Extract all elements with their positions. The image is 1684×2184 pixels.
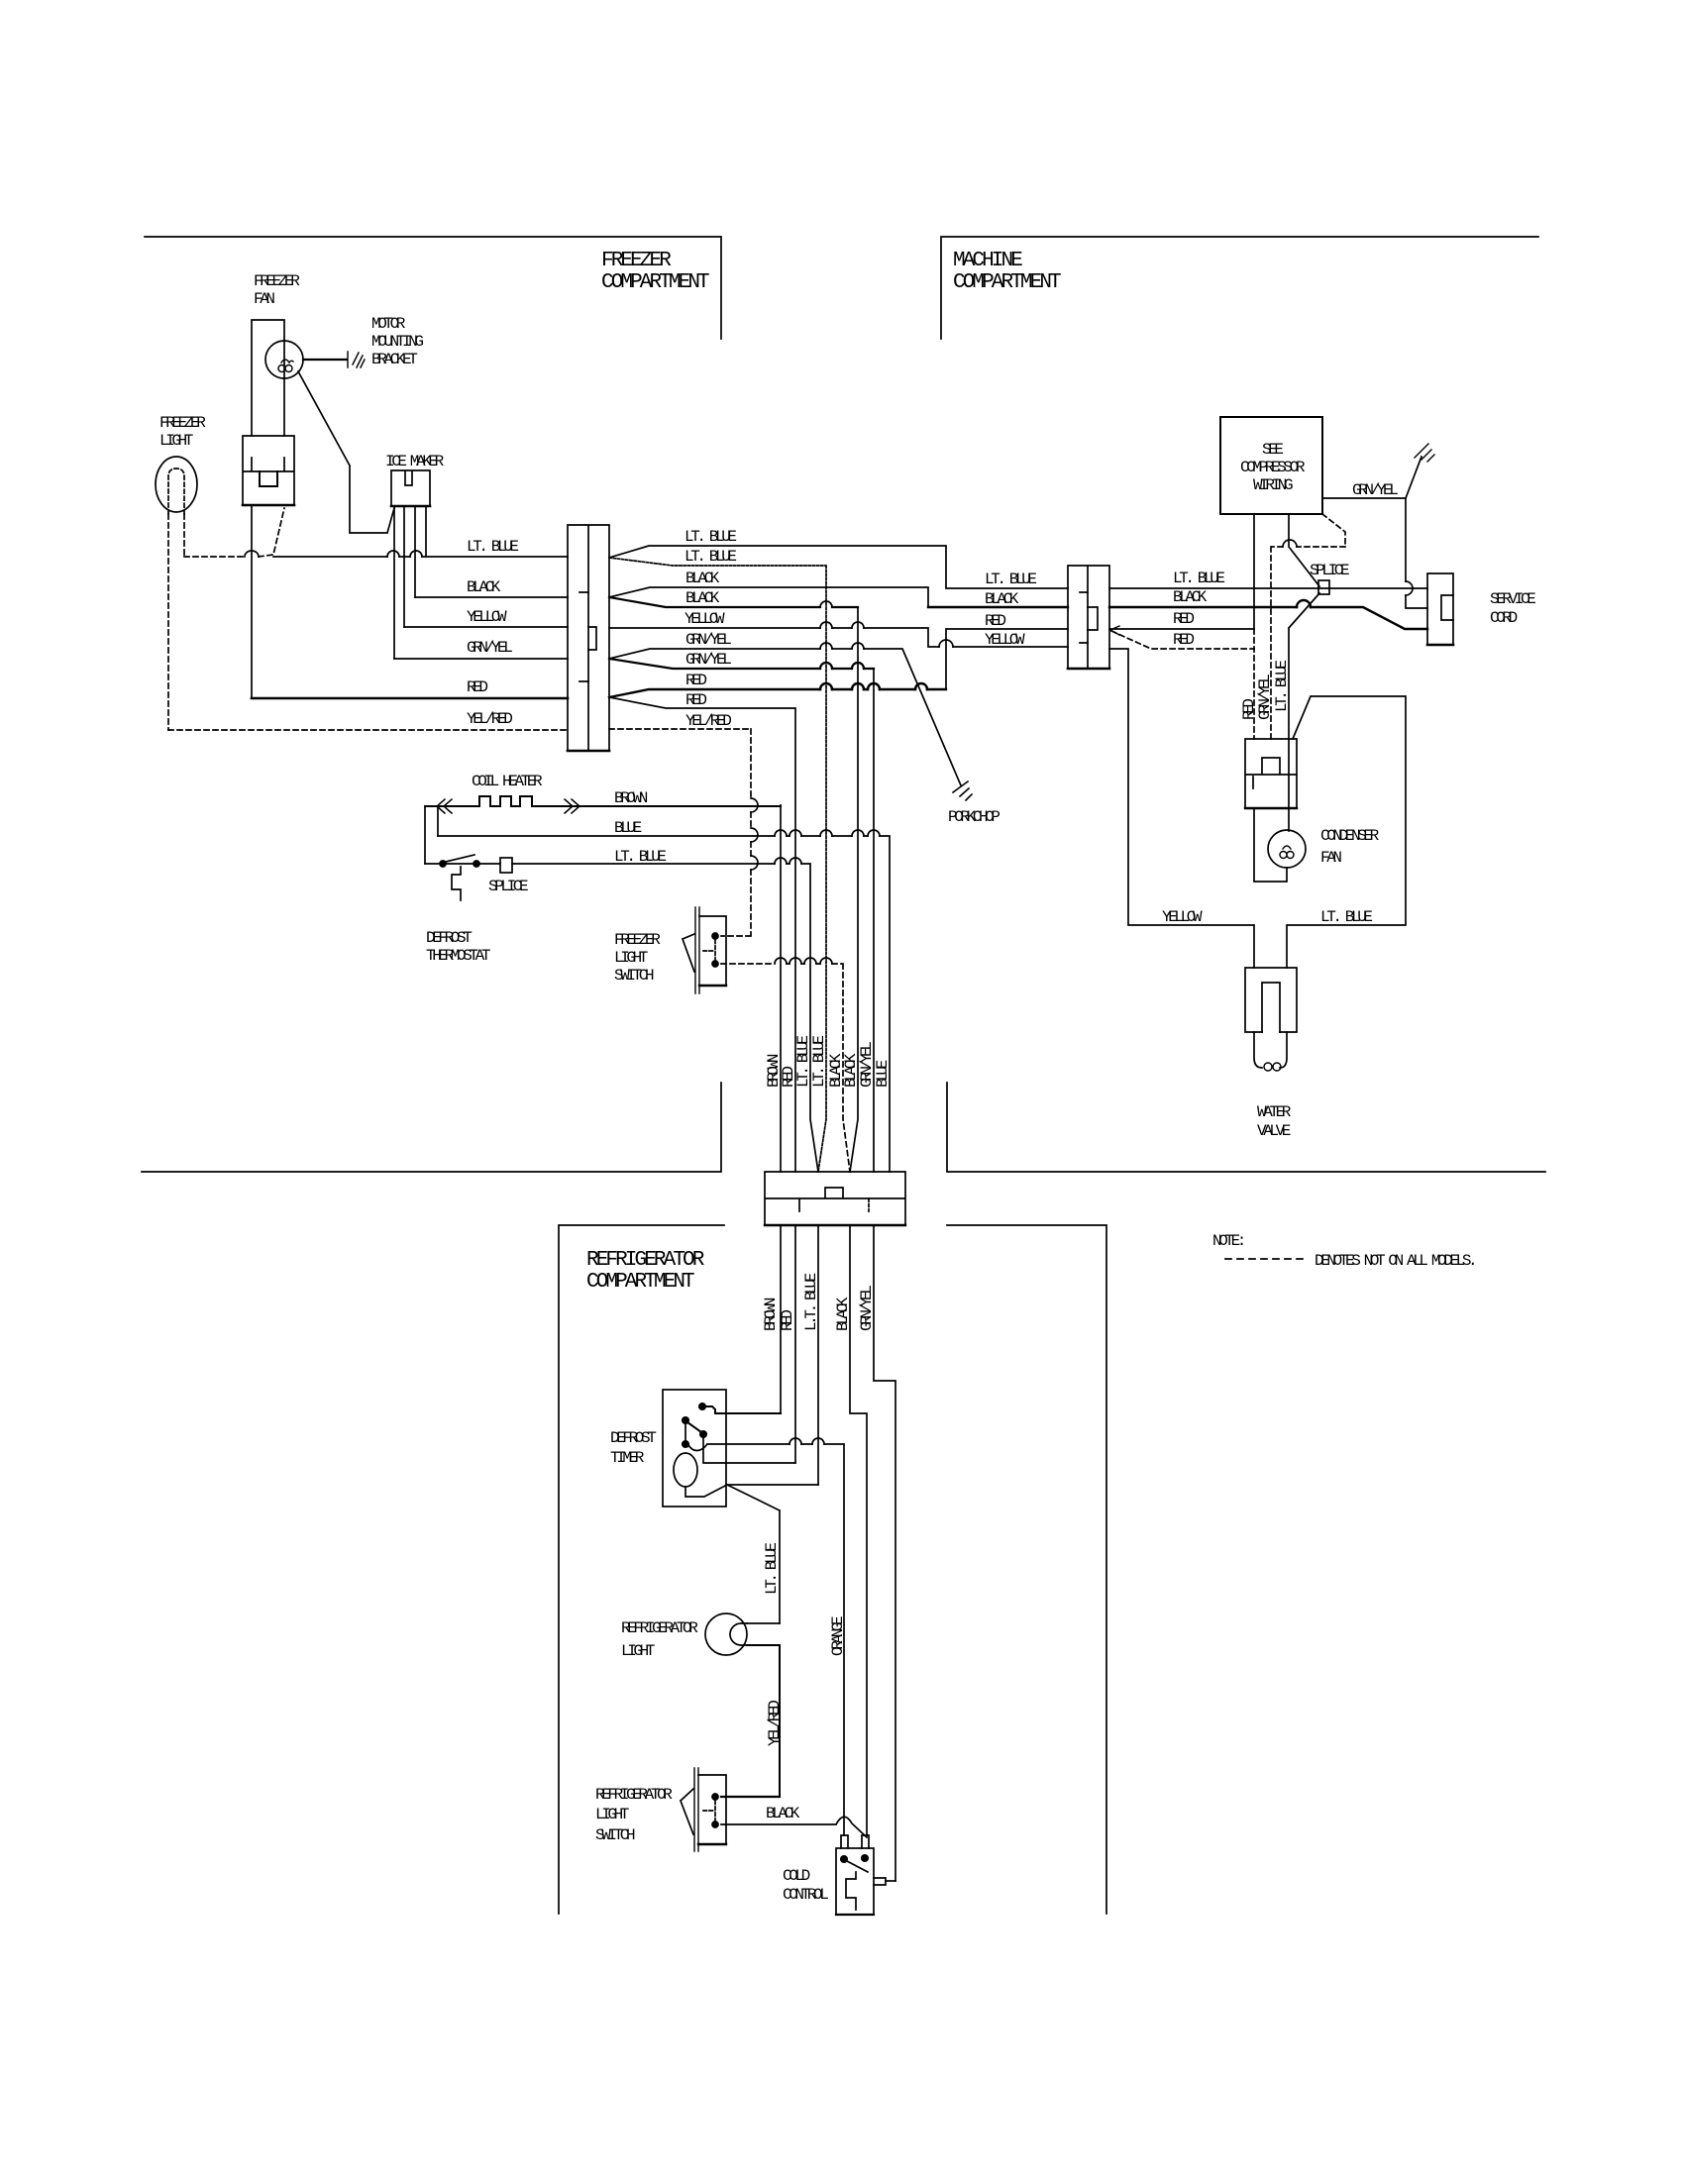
svg-text:YEL/RED: YEL/RED xyxy=(685,712,731,730)
defrost timer contact 1 xyxy=(699,1404,705,1409)
freezer fan box notch xyxy=(260,471,277,486)
wire motor diagonal to ice maker xyxy=(298,371,394,533)
refrigerator light switch plate xyxy=(694,1768,698,1851)
refrigerator light switch pin top xyxy=(712,1794,718,1800)
wire red to timer contact 3 xyxy=(703,1437,795,1463)
freezer light switch plate xyxy=(695,907,699,993)
cold control right terminal xyxy=(874,1878,886,1885)
freezer compartment bottom border xyxy=(142,1083,721,1172)
condenser fan coil xyxy=(1280,846,1294,859)
defrost timer contact 2 xyxy=(683,1417,688,1423)
wire freezer light lead to fan xyxy=(184,508,284,557)
service cord bottom edge xyxy=(1427,644,1453,647)
defrost thermostat contact 2 xyxy=(474,861,479,867)
svg-text:FREEZER: FREEZER xyxy=(254,272,300,290)
grn/yel hop over ltblue xyxy=(1406,581,1413,595)
compressor terminal box bottom edge xyxy=(1245,807,1297,809)
svg-text:BLACK: BLACK xyxy=(467,578,501,596)
note dashes xyxy=(1225,1258,1304,1260)
wire motor to bracket xyxy=(303,359,347,361)
refrigerator light switch dashes xyxy=(703,1801,715,1820)
connector bottom edge xyxy=(765,1224,905,1226)
blue hops xyxy=(775,830,880,836)
svg-text:RED: RED xyxy=(1173,610,1194,628)
svg-text:DEFROST: DEFROST xyxy=(426,929,472,947)
svg-text:SERVICE: SERVICE xyxy=(1490,590,1535,608)
svg-text:LIGHT: LIGHT xyxy=(621,1642,655,1660)
red upper hops xyxy=(820,683,927,689)
svg-text:RED: RED xyxy=(779,1310,796,1331)
ice maker pin 1 xyxy=(393,508,395,659)
svg-text:COMPRESSOR: COMPRESSOR xyxy=(1240,459,1306,476)
svg-text:BLACK: BLACK xyxy=(685,589,720,607)
wire LT BLUE to motor xyxy=(727,1484,818,1486)
cold control contact right xyxy=(862,1855,868,1861)
freezer fan box bottom edge xyxy=(243,504,294,507)
water valve coil xyxy=(1264,1063,1281,1071)
svg-text:REFRIGERATOR: REFRIGERATOR xyxy=(586,1249,705,1272)
refrigerator light switch wedge xyxy=(681,1789,693,1834)
wire RED to freezer connector xyxy=(252,697,568,700)
svg-text:MOTOR: MOTOR xyxy=(371,315,406,333)
wire BLACK upper to machine connector xyxy=(609,587,928,607)
freezer fan frame xyxy=(252,320,284,436)
refrigerator light switch pin bottom xyxy=(712,1821,718,1827)
motor mounting bracket symbol xyxy=(348,352,365,367)
wire BLACK from switch to cold control xyxy=(721,1817,867,1837)
svg-text:RED: RED xyxy=(685,691,706,709)
coil heater brown line xyxy=(425,796,781,806)
svg-text:GRN/YEL: GRN/YEL xyxy=(1352,481,1398,499)
svg-text:COIL HEATER: COIL HEATER xyxy=(472,773,543,790)
svg-text:GRN/YEL: GRN/YEL xyxy=(858,1286,876,1331)
wire hop over red vertical xyxy=(245,551,259,557)
freezer light switch dashes xyxy=(703,940,715,961)
black dashed hops xyxy=(775,958,832,964)
refrigerator light filament xyxy=(730,1623,747,1645)
wire lt blue to bulb xyxy=(747,1622,780,1624)
ltblue line hops xyxy=(775,858,801,864)
svg-text:REFRIGERATOR: REFRIGERATOR xyxy=(621,1619,698,1637)
porkchop ground symbol xyxy=(953,781,972,800)
freezer connector ticks xyxy=(579,592,588,681)
defrost timer contact 3 xyxy=(700,1431,706,1437)
refrigerator harness connector xyxy=(765,1172,905,1225)
svg-text:LIGHT: LIGHT xyxy=(595,1806,629,1823)
wire hop black over ltblue vert xyxy=(820,601,832,607)
water valve slot xyxy=(1262,983,1280,1032)
svg-text:RED: RED xyxy=(467,678,487,696)
svg-text:GRN/YEL: GRN/YEL xyxy=(685,631,731,649)
svg-text:LT. BLUE: LT. BLUE xyxy=(684,528,736,546)
wire RED alt dashed xyxy=(1111,631,1254,649)
wire hop over pin1 xyxy=(387,551,399,557)
wire LT BLUE diagonal to light xyxy=(727,1485,780,1623)
svg-text:FREEZER: FREEZER xyxy=(601,250,672,272)
wire LT. BLUE upper to machine connector xyxy=(609,546,1068,588)
svg-text:WIRING: WIRING xyxy=(1253,476,1293,494)
svg-text:ICE MAKER: ICE MAKER xyxy=(385,453,445,470)
freezer connector body xyxy=(568,525,609,751)
grn/yel dashed hop xyxy=(1283,540,1297,547)
svg-text:BLUE: BLUE xyxy=(874,1060,892,1088)
cold control stub right xyxy=(862,1835,869,1848)
ice maker pin 4 xyxy=(425,506,427,557)
svg-text:LT. BLUE: LT. BLUE xyxy=(684,548,736,566)
orange hops xyxy=(789,1438,824,1444)
compressor box pin to splice xyxy=(1289,514,1319,586)
refrigerator light switch bottom edge xyxy=(698,1843,726,1845)
see compressor wiring box xyxy=(1220,417,1322,514)
defrost thermostat contact 1 xyxy=(440,861,446,867)
ice maker box bottom edge xyxy=(391,505,430,508)
svg-text:BLACK: BLACK xyxy=(766,1805,800,1822)
svg-text:THERMOSTAT: THERMOSTAT xyxy=(426,947,490,965)
wire LT. BLUE to freezer connector xyxy=(273,556,568,558)
svg-text:COLD: COLD xyxy=(783,1867,810,1885)
yellow hops xyxy=(820,622,953,647)
wire brown to timer contact 1 xyxy=(705,1406,781,1413)
svg-text:FAN: FAN xyxy=(1320,849,1341,867)
condenser fan return loop xyxy=(1254,808,1287,882)
defrost thermostat arm xyxy=(446,855,474,862)
splice square on ltblue xyxy=(500,858,512,873)
water valve leads xyxy=(1254,1032,1287,1068)
svg-text:LT. BLUE: LT. BLUE xyxy=(1320,908,1372,926)
wire LT BLUE vertical merged xyxy=(817,1225,819,1485)
wire GRN/YEL from box xyxy=(1322,457,1421,498)
freezer fan motor circle xyxy=(265,341,303,378)
grn/yel upper hops xyxy=(820,643,864,649)
svg-text:BLACK: BLACK xyxy=(985,590,1019,608)
ice maker box xyxy=(391,470,430,506)
svg-text:BLUE: BLUE xyxy=(614,819,642,837)
service cord notch xyxy=(1441,595,1453,620)
svg-text:DENOTES NOT ON ALL MODELS.: DENOTES NOT ON ALL MODELS. xyxy=(1315,1252,1474,1270)
svg-text:COMPARTMENT: COMPARTMENT xyxy=(586,1271,694,1294)
coil heater left vertical xyxy=(424,806,426,864)
svg-text:FAN: FAN xyxy=(254,290,274,308)
freezer light switch pin top xyxy=(712,933,718,939)
wire RED lower to refrigerator xyxy=(609,697,795,1463)
refrigerator light bulb xyxy=(705,1613,747,1655)
service cord body xyxy=(1427,573,1453,645)
svg-text:BROWN: BROWN xyxy=(762,1298,780,1331)
wire LT. BLUE lower to refrigerator xyxy=(609,558,826,1172)
svg-text:LIGHT: LIGHT xyxy=(159,432,193,450)
machine connector bottom edge xyxy=(1068,668,1109,671)
cold control bottom edge xyxy=(836,1914,874,1916)
svg-text:CONDENSER: CONDENSER xyxy=(1320,827,1380,845)
svg-text:SWITCH: SWITCH xyxy=(595,1826,635,1844)
wire YELLOW to condenser loop xyxy=(1109,649,1254,968)
splice square xyxy=(1318,580,1329,594)
wire BLUE to connector xyxy=(438,836,890,1172)
wire GRN/YEL to freezer connector xyxy=(394,658,568,660)
defrost timer contact 4 xyxy=(683,1441,688,1447)
svg-text:TIMER: TIMER xyxy=(610,1449,645,1467)
svg-text:PORKCHOP: PORKCHOP xyxy=(948,808,1000,826)
svg-text:BLACK: BLACK xyxy=(834,1297,852,1331)
svg-text:NOTE:: NOTE: xyxy=(1212,1232,1243,1250)
wire yel/red to light switch xyxy=(721,1796,780,1798)
cold control stub left xyxy=(841,1835,848,1848)
wire BLACK lower to refrigerator xyxy=(609,597,858,607)
wire BLACK to service cord xyxy=(1109,607,1427,629)
timer motor lead xyxy=(685,1485,727,1497)
freezer light switch wedge xyxy=(683,934,694,972)
svg-text:COMPARTMENT: COMPARTMENT xyxy=(601,271,709,294)
cold control arm xyxy=(847,1861,868,1872)
wire freezer light lead YEL/RED xyxy=(167,514,169,730)
freezer light switch body xyxy=(699,916,726,986)
connector tick dashed xyxy=(868,1198,870,1211)
svg-text:REFRIGERATOR: REFRIGERATOR xyxy=(595,1786,673,1804)
svg-text:LT. BLUE: LT. BLUE xyxy=(467,538,518,556)
svg-text:SPLICE: SPLICE xyxy=(1310,562,1349,579)
freezer fan motor coil xyxy=(278,360,293,372)
cold control sensor xyxy=(846,1872,856,1910)
wire RED upper to machine connector xyxy=(609,689,946,697)
wire YEL/RED to connector xyxy=(168,729,568,731)
wire hop over pin2 xyxy=(410,551,422,557)
wire RED vertical merged xyxy=(850,1225,867,1835)
svg-text:YEL/RED: YEL/RED xyxy=(766,1701,784,1746)
wire ORANGE from timer xyxy=(688,1444,844,1835)
svg-text:CORD: CORD xyxy=(1490,609,1518,627)
svg-text:LT. BLUE: LT. BLUE xyxy=(1173,570,1224,587)
svg-text:WATER: WATER xyxy=(1257,1103,1292,1121)
svg-text:CONTROL: CONTROL xyxy=(783,1886,828,1904)
wire LT. BLUE through box to condenser fan xyxy=(1288,739,1290,831)
svg-text:LT. BLUE: LT. BLUE xyxy=(763,1543,781,1595)
cold control box xyxy=(836,1848,874,1915)
freezer connector bottom edge xyxy=(568,750,609,753)
svg-text:BLACK: BLACK xyxy=(685,570,720,587)
wire YEL/RED to freezer light switch xyxy=(609,729,751,936)
wire LT. BLUE to service cord xyxy=(1109,587,1427,589)
defrost timer box xyxy=(663,1390,726,1507)
yel/red vertical hops xyxy=(751,798,758,870)
wire LT. BLUE defrost line xyxy=(425,864,818,1172)
machine compartment border xyxy=(941,237,1538,339)
svg-text:ORANGE: ORANGE xyxy=(829,1616,847,1656)
wire grn/yel to cold control xyxy=(886,1880,895,1882)
svg-text:BRACKET: BRACKET xyxy=(371,351,417,368)
wire GRN/YEL lower to refrigerator xyxy=(609,659,874,669)
freezer light bulb xyxy=(156,457,197,512)
machine connector body xyxy=(1068,566,1109,669)
svg-text:SWITCH: SWITCH xyxy=(614,967,654,985)
wire BLACK dashed from switch xyxy=(721,964,850,1172)
svg-text:BLACK: BLACK xyxy=(1173,588,1208,606)
refrigerator light switch body xyxy=(698,1775,726,1844)
svg-text:LT. BLUE: LT. BLUE xyxy=(810,1036,828,1088)
freezer light filament xyxy=(168,468,184,514)
wire GRN/YEL down to service cord xyxy=(1406,498,1427,608)
defrost timer arm xyxy=(687,1422,701,1432)
svg-text:VALVE: VALVE xyxy=(1257,1122,1291,1140)
svg-text:LT. BLUE: LT. BLUE xyxy=(1273,661,1291,712)
svg-text:YEL/RED: YEL/RED xyxy=(467,710,512,728)
machine compartment bottom border xyxy=(947,1083,1545,1172)
condenser fan circle xyxy=(1268,830,1306,868)
svg-text:L.T. BLUE: L.T. BLUE xyxy=(802,1273,820,1331)
svg-text:YELLOW: YELLOW xyxy=(985,631,1025,649)
grn/yel hatch symbol xyxy=(1415,444,1434,462)
contact2-contact4 link xyxy=(684,1423,686,1441)
freezer light switch bottom edge xyxy=(699,985,726,987)
wire GRN/YEL dashed from box corner xyxy=(1271,514,1345,739)
svg-text:MOUNTING: MOUNTING xyxy=(371,333,423,351)
compressor terminal box xyxy=(1245,739,1297,808)
svg-text:DEFROST: DEFROST xyxy=(610,1429,656,1447)
svg-text:SEE: SEE xyxy=(1262,441,1283,459)
svg-text:GRN/YEL: GRN/YEL xyxy=(467,639,512,657)
wire YELLOW to machine connector xyxy=(609,628,1068,647)
freezer compartment border xyxy=(145,237,721,339)
svg-text:LT. BLUE: LT. BLUE xyxy=(985,571,1036,588)
svg-text:LIGHT: LIGHT xyxy=(614,949,648,967)
cold control contact left xyxy=(841,1856,847,1862)
ice maker pin 3 xyxy=(414,506,416,597)
svg-text:FREEZER: FREEZER xyxy=(159,414,206,432)
svg-text:RED: RED xyxy=(685,672,706,689)
freezer connector notch xyxy=(588,627,596,650)
freezer fan box xyxy=(243,436,294,505)
refrigerator compartment border right xyxy=(947,1225,1106,1914)
coil heater blue return vertical xyxy=(437,806,439,836)
svg-text:LT. BLUE: LT. BLUE xyxy=(614,848,666,866)
wire GRN/YEL upper to porkchop xyxy=(609,649,961,785)
svg-text:GRN/YEL: GRN/YEL xyxy=(1256,675,1274,720)
grn/yel lower hops xyxy=(820,663,864,669)
machine connector notch xyxy=(1088,607,1098,630)
wire BLACK to freezer connector xyxy=(415,596,568,598)
wire BROWN vertical xyxy=(780,805,782,1413)
svg-text:YELLOW: YELLOW xyxy=(1162,908,1203,926)
wire freezer fan left pin to RED xyxy=(251,505,253,698)
wire RED to compressor xyxy=(1109,514,1254,629)
red alt arrowhead xyxy=(1110,626,1119,635)
svg-text:RED: RED xyxy=(985,612,1005,630)
refrigerator compartment border left xyxy=(559,1225,724,1914)
svg-text:MACHINE: MACHINE xyxy=(953,250,1022,272)
coil heater chevrons xyxy=(437,799,579,813)
wire LT. BLUE loop right xyxy=(1287,696,1406,968)
water valve body xyxy=(1245,968,1297,1032)
splice diagonal to ltblue vertical xyxy=(1289,593,1319,739)
wire YEL/RED from bulb xyxy=(747,1645,780,1797)
svg-text:BROWN: BROWN xyxy=(614,789,648,807)
svg-text:YELLOW: YELLOW xyxy=(467,608,507,626)
svg-text:RED: RED xyxy=(1173,631,1194,649)
svg-text:FREEZER: FREEZER xyxy=(614,931,661,949)
defrost thermostat capillary xyxy=(452,867,461,900)
svg-text:GRN/YEL: GRN/YEL xyxy=(685,651,731,669)
freezer light switch pin bottom xyxy=(712,961,718,967)
svg-text:YELLOW: YELLOW xyxy=(684,610,725,628)
svg-text:COMPARTMENT: COMPARTMENT xyxy=(953,271,1061,294)
wire YELLOW to freezer connector xyxy=(404,626,568,628)
wire RED dashed below xyxy=(1253,629,1255,739)
ice maker pin 2 xyxy=(403,506,405,627)
defrost timer motor xyxy=(674,1453,697,1487)
machine connector ticks xyxy=(1080,592,1088,643)
svg-text:SPLICE: SPLICE xyxy=(488,878,528,895)
